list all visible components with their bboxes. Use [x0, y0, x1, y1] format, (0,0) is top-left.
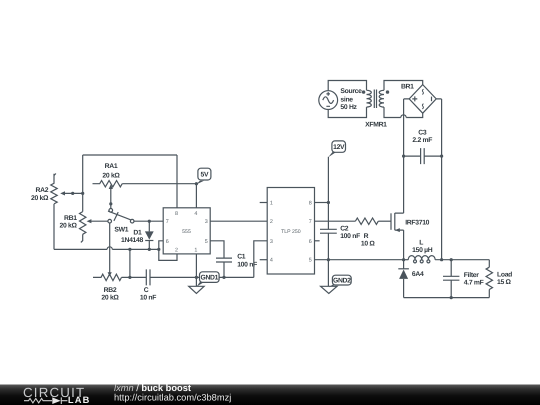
wire 12V rail vertical — [327, 157, 329, 230]
svg-text:20 kΩ: 20 kΩ — [101, 295, 119, 302]
svg-text:2: 2 — [270, 219, 273, 225]
svg-text:RA1: RA1 — [105, 163, 118, 170]
svg-text:7: 7 — [309, 219, 312, 225]
svg-text:RA2: RA2 — [35, 187, 48, 194]
pin 4 stub TLP — [260, 259, 268, 261]
wire 555 pin6 to pin2 jog — [159, 241, 177, 261]
svg-text:2: 2 — [175, 247, 178, 253]
capacitor C3 — [404, 148, 442, 164]
wire XFMR secondary loop — [384, 81, 423, 118]
svg-text:8: 8 — [175, 211, 178, 217]
wire RB2 branch vertical — [129, 249, 131, 277]
wire MOSFET drain rail — [403, 99, 405, 213]
capacitor C1 — [216, 258, 232, 277]
node 12V flag — [328, 141, 345, 157]
node junction pin6 jog — [157, 248, 160, 251]
svg-text:20 kΩ: 20 kΩ — [60, 223, 78, 230]
node junction D1 anode — [148, 220, 151, 223]
transistor Q1 IRF3710 — [391, 213, 404, 232]
svg-text:GND1: GND1 — [200, 275, 218, 282]
wire 555 pin1 to ground — [195, 254, 197, 286]
node junction filter bottom — [450, 296, 453, 299]
svg-text:XFMR1: XFMR1 — [365, 122, 387, 129]
svg-text:5V: 5V — [201, 172, 209, 179]
node junction 5V/RA1/pin4 — [195, 182, 198, 185]
node junction D1 cathode — [148, 248, 151, 251]
svg-text:1: 1 — [270, 201, 273, 207]
svg-text:4: 4 — [194, 211, 197, 217]
svg-text:20 kΩ: 20 kΩ — [31, 195, 49, 202]
resistor R — [355, 218, 391, 224]
svg-text:2.2 mF: 2.2 mF — [412, 137, 432, 144]
node GND1 flag — [197, 272, 220, 287]
wire TLP pin8 to 12V — [315, 202, 329, 204]
inductor L — [404, 256, 490, 263]
wire bottom net with hop — [54, 247, 159, 250]
wire RA1 right lead to 5V node — [122, 183, 196, 185]
ground GND2 symbol — [321, 286, 337, 293]
svg-text:5: 5 — [205, 239, 208, 245]
resistor RB1 (pot) — [80, 212, 108, 243]
wire TLP pin7 to gate resistor — [315, 220, 356, 222]
svg-text:LAB: LAB — [68, 395, 91, 405]
resistor Load — [486, 260, 492, 298]
svg-text:6: 6 — [309, 239, 312, 245]
wire TLP pin5 to output net — [315, 259, 404, 261]
node junction RB2 branch — [128, 248, 131, 251]
node junction GND1 net — [195, 276, 198, 279]
wire top rail to 555 pin 8 — [83, 155, 177, 208]
svg-text:L: L — [419, 240, 423, 247]
svg-text:4: 4 — [270, 258, 273, 264]
wire MOSFET source to node — [403, 230, 405, 260]
svg-text:RB2: RB2 — [104, 287, 117, 294]
svg-text:RB1: RB1 — [64, 215, 77, 222]
source sine V1 — [319, 81, 367, 118]
pin 6 stub TLP — [315, 240, 320, 242]
transformer XFMR1 — [362, 90, 389, 109]
capacitor C — [146, 269, 254, 285]
svg-text:sine: sine — [340, 96, 353, 103]
node junction right rail output — [440, 258, 443, 261]
node junction pin5/GND2 — [327, 258, 330, 261]
node junction C1 bottom — [222, 276, 225, 279]
svg-text:8: 8 — [309, 201, 312, 207]
svg-text:100 nF: 100 nF — [340, 233, 360, 240]
svg-text:R: R — [364, 233, 369, 240]
op-amp U1 555 timer box — [163, 208, 210, 254]
FOOTER — [0, 383, 540, 405]
svg-text:Filter: Filter — [464, 272, 479, 279]
wire output bottom rail — [404, 297, 490, 299]
resistor RA1 (pot) — [93, 181, 123, 209]
node 5V flag — [196, 168, 211, 184]
svg-text:1N4148: 1N4148 — [121, 237, 144, 244]
svg-text:150 µH: 150 µH — [412, 247, 433, 254]
svg-text:C2: C2 — [340, 226, 349, 233]
svg-text:4.7 mF: 4.7 mF — [464, 279, 484, 286]
capacitor C2 — [320, 229, 337, 286]
svg-text:10 Ω: 10 Ω — [361, 241, 376, 248]
node junction RB2 right — [128, 276, 131, 279]
diode D1 — [145, 221, 154, 249]
resistor RB2 (pot) — [93, 274, 122, 280]
node junction RA2 wiper / RB1 lead — [81, 192, 84, 195]
svg-text:BR1: BR1 — [401, 83, 414, 90]
ground GND1 symbol — [189, 286, 204, 293]
bridge rectifier BR1 — [404, 85, 442, 114]
svg-text:D1: D1 — [133, 230, 142, 237]
node junction pin8/12V — [327, 201, 330, 204]
svg-text:6: 6 — [166, 239, 169, 245]
wire 555 pin 4 vertical — [195, 184, 197, 208]
svg-text:50 Hz: 50 Hz — [340, 104, 357, 111]
svg-text:Load: Load — [497, 271, 512, 278]
wire RB2 wiper vertical — [108, 223, 112, 276]
op-amp U2 TLP 250 box — [267, 188, 314, 275]
svg-text:10 nF: 10 nF — [140, 295, 156, 302]
svg-text:555: 555 — [182, 229, 191, 235]
diode D2 6A4 — [398, 260, 409, 298]
svg-text:GND2: GND2 — [333, 278, 351, 285]
svg-text:6A4: 6A4 — [412, 271, 424, 278]
node junction filter top — [450, 258, 453, 261]
wire RA2 bottom lead — [53, 204, 55, 250]
svg-text:C: C — [144, 287, 149, 294]
resistor RA2 (pot) — [51, 174, 83, 204]
svg-text:7: 7 — [166, 219, 169, 225]
node junction C3 left — [402, 155, 405, 158]
svg-text:20 kΩ: 20 kΩ — [102, 173, 120, 180]
svg-text:C1: C1 — [237, 254, 246, 261]
wire 555 pin5 to C1 — [210, 241, 224, 258]
node junction source/inductor/diode — [402, 258, 405, 261]
wire C1 net to TLP pin3 — [254, 241, 267, 278]
svg-text:15 Ω: 15 Ω — [497, 279, 512, 286]
wire RB2 to C — [122, 276, 147, 278]
wire right rail from BR1 — [441, 99, 443, 260]
svg-text:Source: Source — [340, 88, 362, 95]
capacitor Filter — [443, 260, 459, 298]
wire 555 pin3 to TLP pin2 — [210, 220, 267, 222]
node GND2 flag — [329, 275, 351, 287]
wire RB1 top lead vertical — [82, 155, 84, 212]
switch SW1 — [108, 209, 134, 224]
pin 1 stub TLP — [260, 202, 268, 204]
svg-text:IRF3710: IRF3710 — [405, 220, 429, 227]
svg-text:SW1: SW1 — [114, 227, 128, 234]
svg-text:C3: C3 — [418, 129, 427, 136]
node junction C3 right — [440, 155, 443, 158]
svg-text:lxmn / buck boost: lxmn / buck boost — [114, 383, 191, 393]
svg-text:5: 5 — [309, 258, 312, 264]
svg-text:1: 1 — [194, 247, 197, 253]
svg-text:3: 3 — [270, 239, 273, 245]
svg-text:TLP 250: TLP 250 — [281, 229, 301, 235]
svg-text:http://circuitlab.com/c3b8mzj: http://circuitlab.com/c3b8mzj — [114, 392, 231, 402]
node RA2 wiper terminal dot — [71, 192, 74, 195]
wire SW1 common to 555 pin 7 — [134, 220, 163, 222]
svg-text:12V: 12V — [333, 144, 345, 151]
svg-text:3: 3 — [205, 219, 208, 225]
